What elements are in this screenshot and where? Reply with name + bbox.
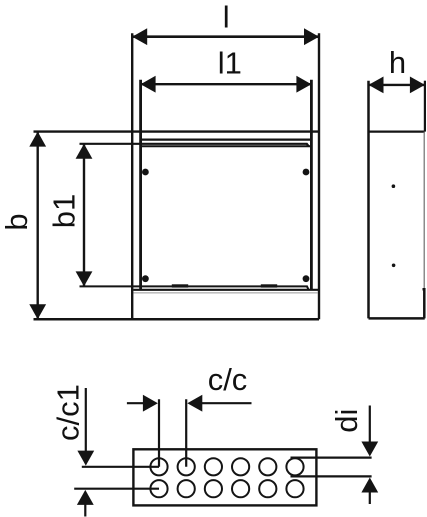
dimension l1 arrowhead left — [141, 76, 156, 93]
front view: lid strip top line (b1 top extension) — [80, 144, 309, 146]
side view: left edge (with h extension up) — [367, 81, 370, 319]
dimension b arrowhead bottom — [29, 304, 46, 319]
dimension h line — [369, 84, 425, 86]
front view: door right edge (with l1 extension up) — [310, 80, 313, 289]
dimension b arrowhead top — [29, 132, 46, 147]
dimension di arrowhead pointing up — [361, 478, 378, 493]
dimension l arrowhead right — [304, 28, 319, 45]
dimension c/c arrowhead pointing left — [187, 395, 202, 412]
front view: door bottom edge (b1 bottom extension) — [80, 286, 309, 289]
front view: lid strip bottom line — [141, 145, 312, 147]
svg-text:di: di — [329, 409, 364, 433]
front view: bottom band top edge — [133, 289, 319, 291]
dimension l1 arrowhead right — [296, 76, 311, 93]
bottom view: hole row1 c5 — [259, 458, 276, 475]
bottom view: hole row2 c2 — [178, 480, 195, 497]
bottom view: hole row1 c2 — [178, 458, 195, 475]
dimension c/c arrowhead pointing right — [143, 395, 158, 412]
dimension c/c1 row1 center line — [82, 466, 159, 468]
svg-text:b: b — [0, 213, 34, 230]
dimension c/c1 upper arrow tail — [85, 388, 87, 452]
dimension di lower arrow tail — [369, 492, 371, 504]
svg-text:c/c: c/c — [208, 362, 248, 397]
dimension di top tangent line — [291, 457, 372, 459]
dimension c/c left tail line — [127, 402, 144, 404]
front view: hinge tick right on door bottom — [261, 284, 277, 287]
bottom view: hole row1 c1 — [150, 458, 167, 475]
svg-text:h: h — [389, 45, 406, 80]
front view: cabinet outer box bottom edge (with b extension to left) — [34, 318, 320, 321]
front view: door top edge — [141, 139, 312, 141]
dimension b1 arrowhead bottom — [76, 271, 93, 286]
side view: right edge thick lower part with notch — [423, 289, 425, 318]
bottom view: hole row1 c4 — [232, 458, 249, 475]
dimension di upper arrow tail — [369, 406, 371, 445]
dimension c/c right tail line — [202, 402, 252, 404]
dimension di arrowhead pointing down — [361, 442, 378, 457]
front view: screw dot top-left — [142, 169, 149, 176]
dimension b1 line — [83, 144, 85, 287]
front view: hinge tick left on door bottom — [172, 284, 188, 287]
dimension h arrowhead left — [369, 77, 384, 94]
dimension h arrowhead right — [410, 77, 425, 94]
bottom view: hole row2 c6 — [286, 480, 303, 497]
side view: top edge — [369, 130, 425, 132]
front view: screw dot bottom-right — [303, 275, 310, 282]
svg-text:b1: b1 — [46, 194, 81, 228]
bottom view: hole row2 c3 — [205, 480, 222, 497]
side view: small dot upper — [392, 184, 396, 188]
front view: cabinet outer box right edge (with l extension up) — [318, 33, 320, 319]
bottom view: knockout box outline — [133, 449, 316, 505]
dimension l1 line — [141, 83, 312, 85]
front view: screw dot bottom-left — [142, 275, 149, 282]
dimension b line — [37, 132, 39, 320]
bottom view: hole row2 c5 — [259, 480, 276, 497]
side view: right edge thin upper part — [423, 132, 425, 290]
dimension b1 arrowhead top — [76, 144, 93, 159]
dimension l line — [132, 35, 319, 38]
front view: cabinet outer box top edge (with b extension to left) — [34, 130, 320, 132]
dimension c/c extension line hole2 — [185, 399, 187, 467]
front view: cabinet outer box left edge (with l extension up) — [131, 33, 133, 319]
bottom view: hole row1 c3 — [205, 458, 222, 475]
bottom view: hole row2 c1 — [150, 480, 167, 497]
side view: small dot lower — [392, 264, 396, 268]
dimension di bottom tangent line — [291, 475, 372, 477]
svg-text:c/c1: c/c1 — [50, 384, 85, 441]
dimension c/c1 arrowhead pointing down — [77, 451, 94, 466]
side view: bottom edge — [369, 317, 425, 320]
dimension c/c1 row2 center line — [74, 488, 159, 490]
dimension c/c1 arrowhead pointing up — [77, 490, 94, 505]
dimension c/c extension line hole1 — [158, 399, 160, 467]
bottom view: hole row2 c4 — [232, 480, 249, 497]
dimension c/c1 lower arrow tail — [84, 505, 86, 517]
svg-text:l1: l1 — [218, 46, 242, 81]
front view: screw dot top-right — [303, 169, 310, 176]
svg-text:l: l — [223, 0, 230, 34]
bottom view: hole row1 c6 — [286, 458, 303, 475]
front view: bottom band faint inner line — [134, 292, 319, 294]
dimension l arrowhead left — [132, 28, 147, 45]
front view: door left edge (with l1 extension up) — [139, 80, 142, 289]
side view: h right extension line — [424, 81, 426, 132]
